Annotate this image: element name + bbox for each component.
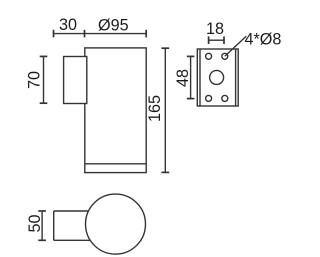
plate inner line left	[199, 49, 201, 106]
screw hole bottom-right	[222, 95, 228, 101]
tick 18 left	[208, 36, 210, 44]
screw hole top-left	[206, 53, 212, 59]
svg-text:48: 48	[174, 69, 192, 87]
tick 18 right	[223, 36, 225, 44]
top dimension line	[54, 33, 147, 35]
bottom view circle	[86, 194, 146, 254]
svg-text:4*Ø8: 4*Ø8	[245, 31, 282, 49]
svg-text:165: 165	[146, 95, 164, 122]
tick 48 bottom	[187, 98, 195, 100]
tick 48 top	[187, 55, 195, 57]
svg-text:18: 18	[206, 20, 224, 38]
cylinder bottom rim line	[85, 163, 146, 165]
svg-text:50: 50	[26, 214, 44, 232]
bottom view arm bottom edge	[54, 239, 91, 241]
tick 165 bottom	[161, 171, 169, 173]
tick 50 top	[38, 210, 46, 212]
dimension line 50	[41, 211, 43, 240]
bottom view arm top edge	[54, 210, 89, 212]
svg-text:70: 70	[26, 71, 44, 89]
dimension line 18	[209, 39, 224, 41]
tick middle	[84, 30, 86, 38]
tick right (Ø95)	[145, 30, 147, 38]
tick 70 bottom	[40, 102, 48, 104]
bottom view arm left edge	[53, 211, 55, 240]
tick 70 top	[40, 55, 48, 57]
plate inner line right	[235, 49, 237, 106]
svg-text:Ø95: Ø95	[98, 17, 129, 35]
dimension line 70	[43, 56, 45, 103]
screw hole top-right	[222, 53, 228, 59]
dimension line 165	[164, 48, 166, 172]
dimension line 48	[190, 56, 192, 98]
cylinder body side view	[85, 48, 146, 173]
center cable hole	[210, 70, 224, 84]
tick 50 bottom	[38, 239, 46, 241]
mounting plate rear view	[197, 49, 238, 106]
leader line 4*Ø8	[225, 36, 246, 56]
tick left (30)	[53, 30, 55, 38]
tick 165 top	[161, 47, 169, 49]
mount bracket side view	[64, 57, 87, 104]
screw hole bottom-left	[206, 95, 212, 101]
svg-text:30: 30	[59, 16, 77, 34]
